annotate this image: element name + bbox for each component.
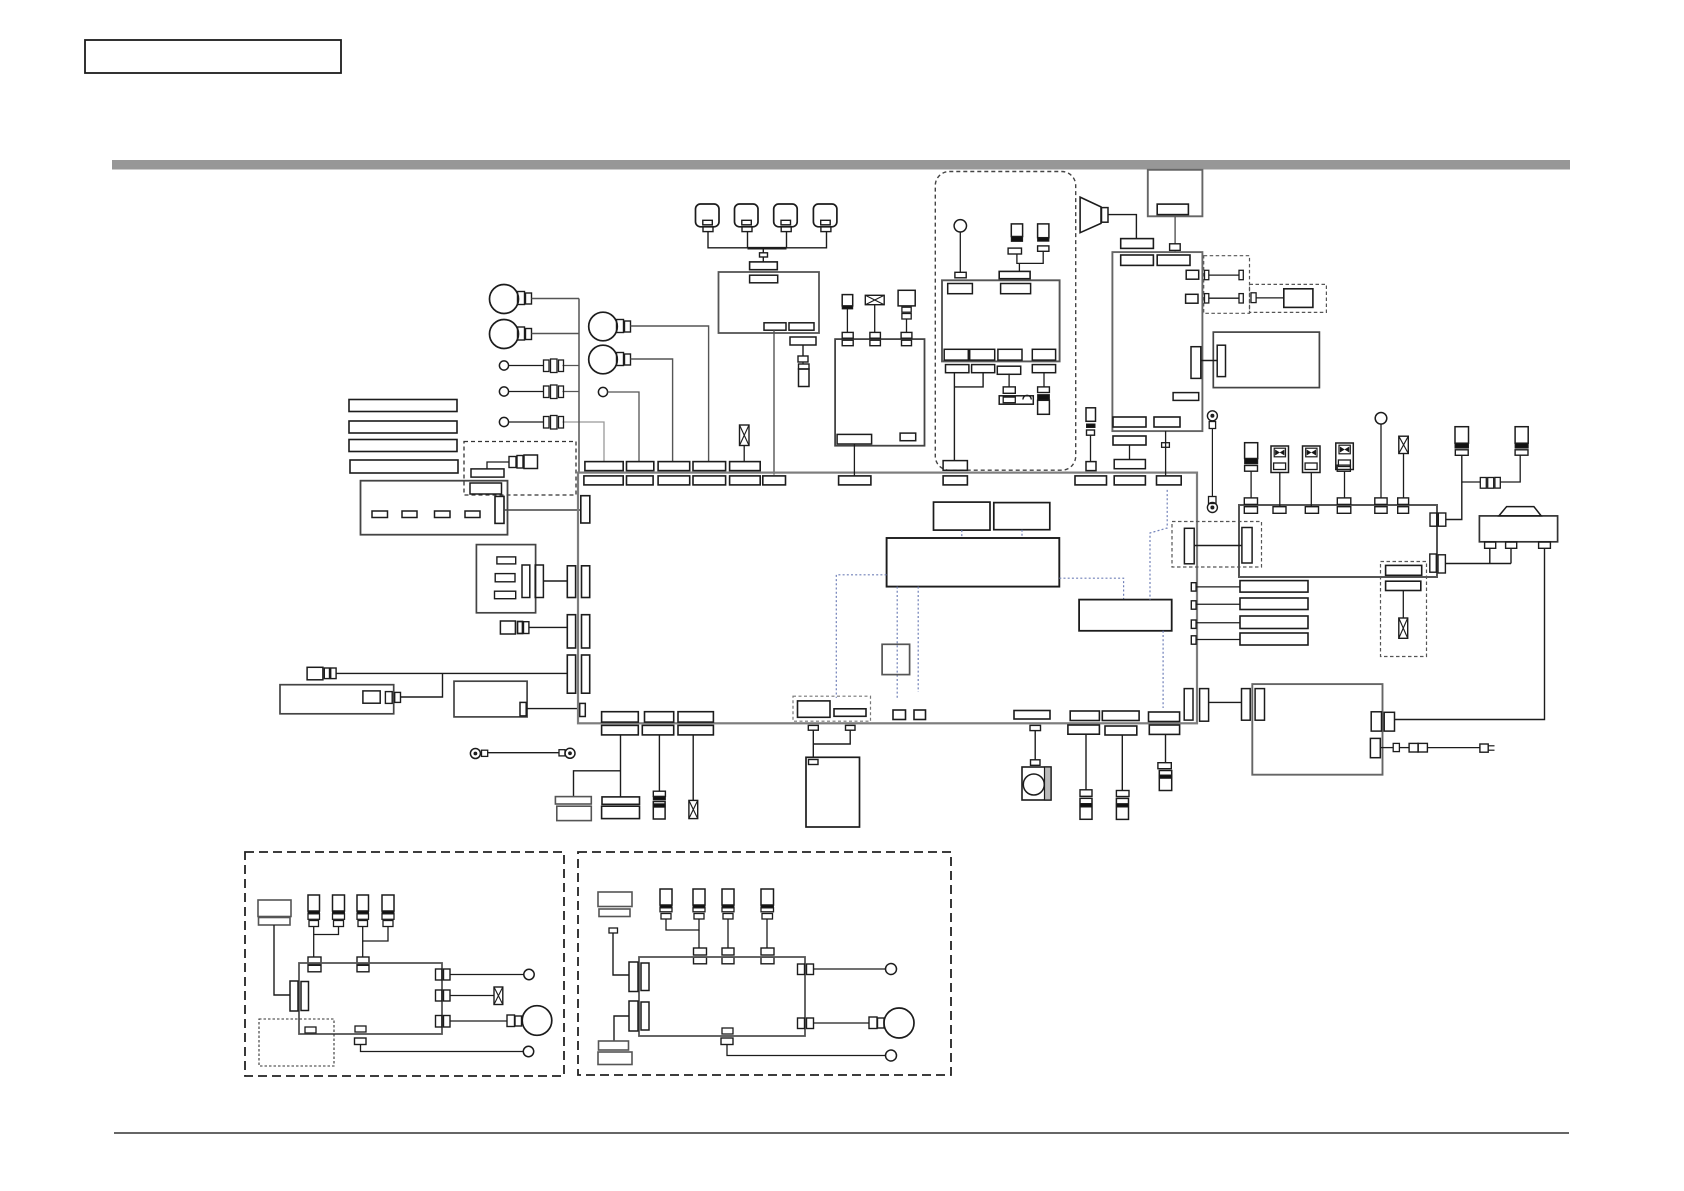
ws motor: [522, 1006, 552, 1036]
main bottom conn fan: [1014, 711, 1050, 720]
main top conn below 8: [943, 476, 967, 485]
key 3: [495, 591, 516, 599]
fuse wire F1: [1446, 455, 1462, 519]
acc wire 1: [953, 373, 955, 461]
acc relay label A: [948, 284, 973, 294]
ws bottom pad: [355, 1026, 367, 1045]
rr bottom pad: [721, 1028, 733, 1045]
aux connector: [1159, 771, 1171, 791]
key 2: [495, 574, 515, 582]
main left conn 2b: [582, 615, 590, 648]
main left conn 4: [580, 703, 586, 716]
antenna lead 1: [1205, 270, 1244, 279]
rr left pair A: [629, 962, 649, 992]
relay top conn 2: [1273, 507, 1286, 514]
relay top conn 6: [1398, 507, 1409, 514]
inline conn b2: [544, 385, 564, 399]
ic box small: [882, 644, 910, 674]
noise filter above top conn 5: [740, 425, 750, 462]
head conn B: [1157, 255, 1190, 265]
wire bottom conn2 down: [658, 735, 660, 791]
acc pad on main edge: [943, 461, 967, 471]
rear cable: [1380, 743, 1480, 752]
lamp B2: [490, 320, 532, 349]
head bottom conn B: [1154, 417, 1180, 427]
U1 output conn B: [789, 323, 814, 330]
main bottom conn below 2: [642, 725, 673, 735]
dotted link A: [961, 530, 963, 538]
rr capacitor 1: [660, 889, 672, 919]
wire right bar 1: [1196, 586, 1240, 588]
wire amp junction: [401, 673, 443, 697]
wire bottom branch: [574, 771, 621, 797]
acc relay plug 1: [946, 365, 969, 373]
main bottom conn below 3: [678, 725, 713, 735]
relay right conn 1: [1430, 513, 1446, 526]
ws small lamp 2: [523, 1046, 533, 1056]
pump long wire: [1395, 548, 1545, 719]
power unit conn: [809, 760, 819, 765]
battery lead wire: [1085, 735, 1087, 790]
main bottom conn T above: [1149, 712, 1180, 722]
rr source box: [598, 892, 632, 917]
wire b3: [509, 422, 604, 462]
main top conn below 2: [627, 476, 654, 485]
pump pin 1: [1485, 542, 1496, 548]
indicator b1: [499, 361, 508, 370]
right bar 3: [1240, 616, 1308, 629]
dotted link B: [1021, 530, 1023, 538]
rr wire 3: [727, 919, 729, 948]
wire horn: [1108, 215, 1136, 239]
antenna amp box: [1284, 289, 1313, 308]
display conn: [1157, 204, 1188, 215]
dotted harness down: [1162, 631, 1164, 708]
acc relay conn: [999, 271, 1030, 278]
main top conn below 7: [839, 476, 871, 485]
module box M2: [454, 681, 527, 717]
acc capacitor 4: [1038, 395, 1050, 415]
ws left conn pair: [290, 981, 309, 1011]
wire aux to main: [336, 672, 567, 674]
mainboard box: [887, 538, 1060, 587]
rr capacitor 2: [693, 889, 705, 919]
rr main box: [639, 957, 805, 1036]
ws pad 34: [357, 957, 369, 972]
ws lamp wire 1: [450, 974, 524, 976]
wire bottom plugs: [813, 730, 850, 757]
ws right pair 3: [436, 1016, 451, 1028]
indicator b2: [499, 387, 508, 396]
bottom pad sq2: [914, 710, 926, 720]
main bottom conn above 2: [645, 712, 674, 722]
main top conn above 4: [693, 462, 726, 471]
ws dashed box: [245, 852, 564, 1076]
ws motor wire: [450, 1020, 507, 1022]
main top conn below 3: [658, 476, 690, 485]
head conn A: [1121, 255, 1154, 265]
bus junction plug: [760, 253, 768, 257]
inline resistor: [1480, 477, 1500, 488]
power unit box: [806, 757, 860, 827]
wire B3: [631, 326, 709, 462]
slot bar 1: [349, 400, 457, 412]
relay above conn 4: [1398, 498, 1409, 505]
ground screw 1: [1207, 411, 1217, 429]
antenna dashed box 2: [1250, 284, 1327, 312]
rr right pair L: [798, 1018, 814, 1029]
fuse slot 2: [402, 511, 417, 518]
wire bottom conn3 down: [692, 735, 694, 801]
acc wire 4: [1043, 373, 1045, 387]
fan plug: [1030, 725, 1041, 765]
acc relay plug 2: [972, 365, 995, 373]
rr pad 3: [722, 948, 734, 964]
wire b2: [509, 391, 579, 393]
accessory bulb pad: [955, 272, 966, 278]
rear right conn up: [1371, 712, 1394, 731]
antenna plug: [1251, 293, 1284, 303]
rr wire 12: [666, 919, 699, 948]
relay noise filter: [1399, 436, 1409, 498]
acc capacitor B: [1038, 224, 1049, 251]
link wire: [1194, 545, 1242, 547]
sensor lead wire: [1121, 735, 1123, 791]
relay above conn 1: [1244, 498, 1257, 505]
wire M2 to main: [526, 708, 580, 710]
ws main box: [299, 963, 442, 1034]
sensor plug: [1116, 791, 1129, 797]
fuse panel conn: [495, 496, 504, 523]
right bar 4: [1240, 633, 1308, 645]
bus wire down left: [578, 299, 580, 473]
main right pin 4: [1191, 636, 1196, 644]
switch pad B: [470, 483, 502, 494]
bottom plug A: [808, 725, 818, 730]
pcb label box B: [994, 503, 1050, 530]
relay bulb: [1375, 413, 1387, 498]
bottom group conn A: [798, 701, 831, 717]
cd changer box: [1213, 332, 1319, 388]
keypad K1: [696, 204, 720, 232]
speaker pad L: [555, 797, 591, 821]
wire B4: [631, 359, 673, 462]
ws capacitor 3: [357, 895, 369, 927]
main right pin 3: [1191, 620, 1196, 628]
lamp B4: [589, 345, 631, 374]
control unit U1: [719, 272, 820, 333]
wire b4: [608, 392, 639, 462]
keyboard unit box: [476, 545, 535, 613]
M2 edge conn: [520, 702, 526, 716]
relay top conn 3: [1305, 507, 1318, 514]
antenna lead 2: [1205, 294, 1244, 303]
fuse slot 1: [372, 511, 388, 518]
acc relay bottom conn 4: [1032, 349, 1055, 360]
rr capacitor 3: [722, 889, 734, 919]
header gray bar: [112, 160, 1570, 170]
head pin B: [1186, 294, 1198, 303]
main bottom conn S below: [1105, 726, 1137, 735]
plug under U1-B: [798, 356, 808, 364]
ws small lamp 1: [524, 969, 534, 979]
wire cd link: [1201, 360, 1217, 362]
main chassis box: [578, 473, 1197, 724]
buzzer plug: [1003, 387, 1015, 393]
main left conn 0: [581, 496, 590, 523]
pump pin 2: [1506, 542, 1517, 548]
battery connector: [1080, 798, 1092, 819]
acc capacitor A: [1008, 224, 1023, 254]
rear right conn low: [1370, 738, 1380, 757]
deck connector: [898, 290, 915, 332]
capacitor under U1-B: [799, 364, 810, 387]
relay above conn 3: [1375, 498, 1387, 505]
main left conn 2a: [567, 615, 575, 648]
wire bottom conn1 down: [620, 735, 622, 797]
keyboard conn in: [522, 565, 530, 598]
capacitor bottom: [653, 791, 665, 819]
aux plug: [1158, 763, 1171, 769]
mini jack: [500, 621, 529, 634]
horn conn pad: [1121, 239, 1154, 249]
rr wire 4: [766, 919, 768, 948]
aux pad A: [1386, 565, 1422, 575]
main top conn below 5: [730, 476, 761, 485]
bottom plug B: [846, 725, 856, 730]
patch cable: [470, 748, 575, 758]
ws source box: [258, 900, 291, 925]
rr capacitor 4: [761, 889, 774, 919]
ws wire 34: [363, 927, 388, 958]
wire fuse panel to main: [504, 509, 581, 511]
ws wire 12: [314, 927, 339, 958]
dotted harness mid1: [896, 587, 898, 698]
relay above conn 2: [1337, 498, 1351, 505]
main right conn pair: [1184, 689, 1208, 722]
rr bottom wire: [727, 1045, 886, 1056]
keypad K2: [735, 204, 759, 232]
amp plug a: [385, 692, 392, 704]
deck noise filter: [865, 295, 884, 332]
ws capacitor 2: [333, 895, 345, 927]
inline conn b1: [544, 359, 564, 373]
fuse slot 3: [435, 511, 451, 518]
head bottom conn A: [1113, 417, 1146, 427]
deck bottom conn A: [837, 434, 872, 444]
main top conn below 1: [584, 476, 623, 485]
speaker pad R: [602, 797, 640, 819]
rr motor: [884, 1008, 914, 1038]
aux dashed box: [1381, 562, 1427, 657]
pump wires: [1445, 548, 1511, 563]
slot bar 3: [349, 440, 457, 452]
dashed bottom connector group: [793, 696, 871, 721]
acc relay plug 4: [1032, 365, 1055, 373]
ws filter wire: [450, 995, 494, 997]
slot bar 2: [349, 421, 457, 433]
fuse wire F2: [1501, 455, 1521, 482]
main top conn below 6: [763, 476, 786, 485]
rr ground pads: [598, 1041, 632, 1065]
wire keyboard to main: [543, 580, 567, 582]
main left conn 1b: [582, 566, 590, 598]
wire right bar 4: [1196, 639, 1240, 641]
fuse branch wire: [1462, 481, 1481, 483]
key 1: [497, 557, 516, 564]
title box: [85, 40, 341, 73]
antenna dashed box 1: [1204, 256, 1250, 314]
link conn B: [1242, 528, 1252, 564]
bottom pad sq1: [893, 710, 906, 720]
keypad connector: [750, 257, 778, 270]
main top conn above 1: [585, 462, 623, 471]
rr motor wire: [814, 1022, 870, 1024]
switch pad A: [471, 469, 504, 477]
relay fuse F2: [1515, 427, 1528, 455]
acc wire 3: [1008, 374, 1010, 387]
main bottom conn S above: [1102, 711, 1139, 721]
rr small lamp D: [886, 1050, 897, 1061]
pump pin 3: [1539, 542, 1551, 548]
keypad K3: [774, 204, 798, 232]
head lead B wire: [1165, 431, 1167, 476]
relay fuse 1: [1245, 443, 1258, 498]
dotted harness top: [1150, 490, 1167, 600]
main top conn above 5: [730, 462, 761, 471]
head lead A: [1113, 436, 1146, 460]
rr source wire: [613, 933, 629, 975]
micro relay 2: [1303, 446, 1321, 507]
rear left conn pair: [1242, 689, 1265, 721]
ground screw 2: [1207, 497, 1217, 513]
right bar 2: [1240, 598, 1308, 610]
rr lamp wire U: [814, 968, 886, 970]
acc wire 2: [954, 373, 983, 387]
deck top pair 2: [870, 332, 881, 345]
main left conn 3a: [567, 655, 575, 693]
mid fuse pad: [1086, 462, 1096, 471]
switch wire: [487, 462, 509, 469]
keypad bus wire: [708, 232, 827, 253]
rr pad 2: [694, 948, 707, 964]
cd inner conn: [1217, 345, 1225, 376]
rear box: [1252, 684, 1382, 775]
head unit box: [1112, 252, 1202, 431]
fuse panel box: [361, 481, 508, 535]
wire display down: [1174, 216, 1176, 244]
accessory bulb: [954, 220, 966, 273]
aux lead wire: [1165, 734, 1167, 762]
pcb label box A: [934, 502, 991, 530]
main top conn below 10: [1114, 476, 1145, 485]
ws right pair 2: [436, 990, 451, 1001]
bottom group conn B: [834, 709, 866, 717]
head pin A: [1186, 270, 1199, 279]
rr source plug: [609, 928, 618, 933]
horn speaker: [1080, 197, 1108, 233]
buzzer: [999, 395, 1033, 404]
dotted harness right: [1059, 578, 1123, 599]
main bottom conn below 1: [602, 725, 639, 735]
rr small lamp U: [886, 964, 897, 975]
acc relay bottom conn 2: [970, 349, 995, 360]
rr ground wire: [614, 1016, 629, 1041]
acc cap wires: [1017, 251, 1043, 271]
main top conn below 11: [1157, 476, 1182, 485]
ws noise filter: [494, 987, 503, 1005]
main bottom conn R below: [1068, 725, 1100, 734]
head lead B plug: [1162, 443, 1170, 448]
wire rear link: [1209, 701, 1242, 703]
acc relay label B: [1001, 284, 1031, 294]
U1 inner connector: [750, 275, 778, 283]
ws capacitor 4: [382, 895, 394, 927]
aux pad B: [1386, 581, 1421, 590]
relay right conn 2: [1430, 554, 1446, 573]
amp inner conn: [363, 691, 380, 703]
ws dotted pad: [305, 1027, 316, 1033]
inline conn b3: [544, 416, 564, 430]
relay top conn 1: [1244, 507, 1257, 514]
dotted harness left: [836, 575, 886, 698]
pump motor: [1479, 507, 1557, 542]
main bottom conn above 1: [602, 712, 639, 722]
main top conn below 9: [1075, 476, 1107, 485]
aux filter wire: [1402, 591, 1404, 619]
link conn A: [1184, 528, 1194, 564]
ws dotted box: [259, 1019, 334, 1066]
sub board box: [1079, 600, 1172, 631]
accessory dashed box: [935, 172, 1075, 471]
acc conn 4: [1038, 387, 1050, 393]
accessory relay box: [942, 280, 1060, 361]
main right pin 1: [1191, 583, 1196, 591]
deck capacitor: [842, 295, 853, 333]
amplifier box: [280, 685, 394, 714]
ws bottom wire: [361, 1045, 524, 1052]
main left conn 3b: [582, 655, 590, 693]
ground wire: [1211, 429, 1213, 497]
main top conn above 2: [627, 462, 654, 471]
micro relay 1: [1271, 446, 1289, 507]
link dashed box: [1172, 522, 1262, 568]
ws motor conn: [507, 1015, 522, 1027]
rr dashed box: [578, 852, 951, 1075]
main top conn above 3: [658, 462, 690, 471]
dashed switch unit box: [464, 442, 576, 496]
battery plug: [1080, 790, 1092, 797]
amp plug b: [395, 692, 401, 702]
dotted harness mid2: [917, 587, 919, 692]
ws capacitor 1: [308, 895, 320, 927]
main top conn below 4: [693, 476, 726, 485]
fan box: [1022, 767, 1051, 800]
relay fuse F1: [1455, 427, 1469, 456]
aux noise filter: [1399, 618, 1408, 638]
wire right bar 2: [1196, 603, 1240, 605]
rr left pair B: [629, 1001, 649, 1031]
relay box: [1239, 505, 1437, 577]
acc relay bottom conn 3: [998, 349, 1022, 360]
micro relay 3: [1336, 443, 1354, 498]
main left conn 1a: [567, 566, 575, 598]
mid fuse: [1086, 408, 1096, 462]
wire mini jack: [529, 626, 567, 628]
indicator b3: [499, 417, 508, 426]
noise filter bottom: [689, 800, 698, 818]
right bar 1: [1240, 581, 1308, 593]
